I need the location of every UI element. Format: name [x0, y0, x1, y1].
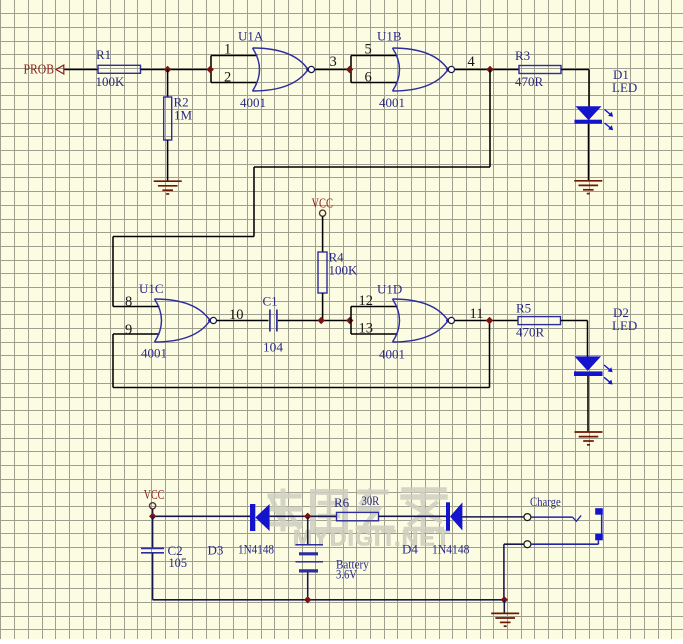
- svg-text:4: 4: [468, 54, 476, 70]
- svg-text:5: 5: [365, 42, 372, 58]
- svg-text:U1A: U1A: [238, 29, 264, 44]
- svg-text:D4: D4: [402, 542, 418, 557]
- svg-text:4001: 4001: [379, 95, 405, 110]
- svg-text:D3: D3: [208, 543, 224, 558]
- svg-text:13: 13: [359, 321, 374, 337]
- svg-text:30R: 30R: [362, 493, 380, 508]
- svg-text:PROB: PROB: [24, 63, 55, 78]
- svg-text:4001: 4001: [141, 346, 167, 361]
- svg-text:VCC: VCC: [144, 487, 165, 502]
- svg-text:105: 105: [169, 555, 188, 570]
- svg-text:8: 8: [125, 294, 132, 310]
- svg-text:R6: R6: [334, 495, 350, 510]
- svg-text:12: 12: [359, 293, 374, 309]
- svg-text:Charge: Charge: [530, 495, 561, 509]
- svg-text:3.6V: 3.6V: [336, 566, 357, 581]
- svg-text:U1C: U1C: [139, 281, 164, 296]
- svg-text:1N4148: 1N4148: [432, 541, 470, 556]
- svg-text:1N4148: 1N4148: [238, 541, 274, 556]
- svg-text:104: 104: [263, 340, 284, 355]
- svg-text:4001: 4001: [379, 347, 405, 362]
- svg-text:3: 3: [330, 54, 337, 70]
- svg-text:100K: 100K: [96, 74, 126, 89]
- svg-text:2: 2: [224, 70, 231, 86]
- svg-text:11: 11: [470, 306, 484, 322]
- svg-text:LED: LED: [612, 318, 637, 333]
- svg-text:6: 6: [365, 70, 372, 86]
- svg-text:470R: 470R: [515, 74, 544, 89]
- svg-text:U1B: U1B: [377, 29, 402, 44]
- svg-text:U1D: U1D: [377, 282, 402, 297]
- svg-text:C1: C1: [263, 294, 278, 309]
- svg-text:LED: LED: [612, 80, 637, 95]
- svg-text:4001: 4001: [240, 95, 266, 110]
- svg-text:R5: R5: [516, 301, 531, 316]
- svg-text:470R: 470R: [516, 325, 545, 340]
- svg-text:100K: 100K: [329, 263, 359, 278]
- svg-text:9: 9: [125, 322, 132, 338]
- svg-text:10: 10: [229, 307, 244, 323]
- svg-text:1: 1: [224, 42, 231, 58]
- svg-text:R3: R3: [515, 48, 530, 63]
- svg-text:VCC: VCC: [312, 195, 334, 210]
- svg-text:MYDIGIT.NET: MYDIGIT.NET: [293, 526, 451, 551]
- svg-text:R1: R1: [96, 47, 111, 62]
- svg-text:1M: 1M: [174, 108, 193, 123]
